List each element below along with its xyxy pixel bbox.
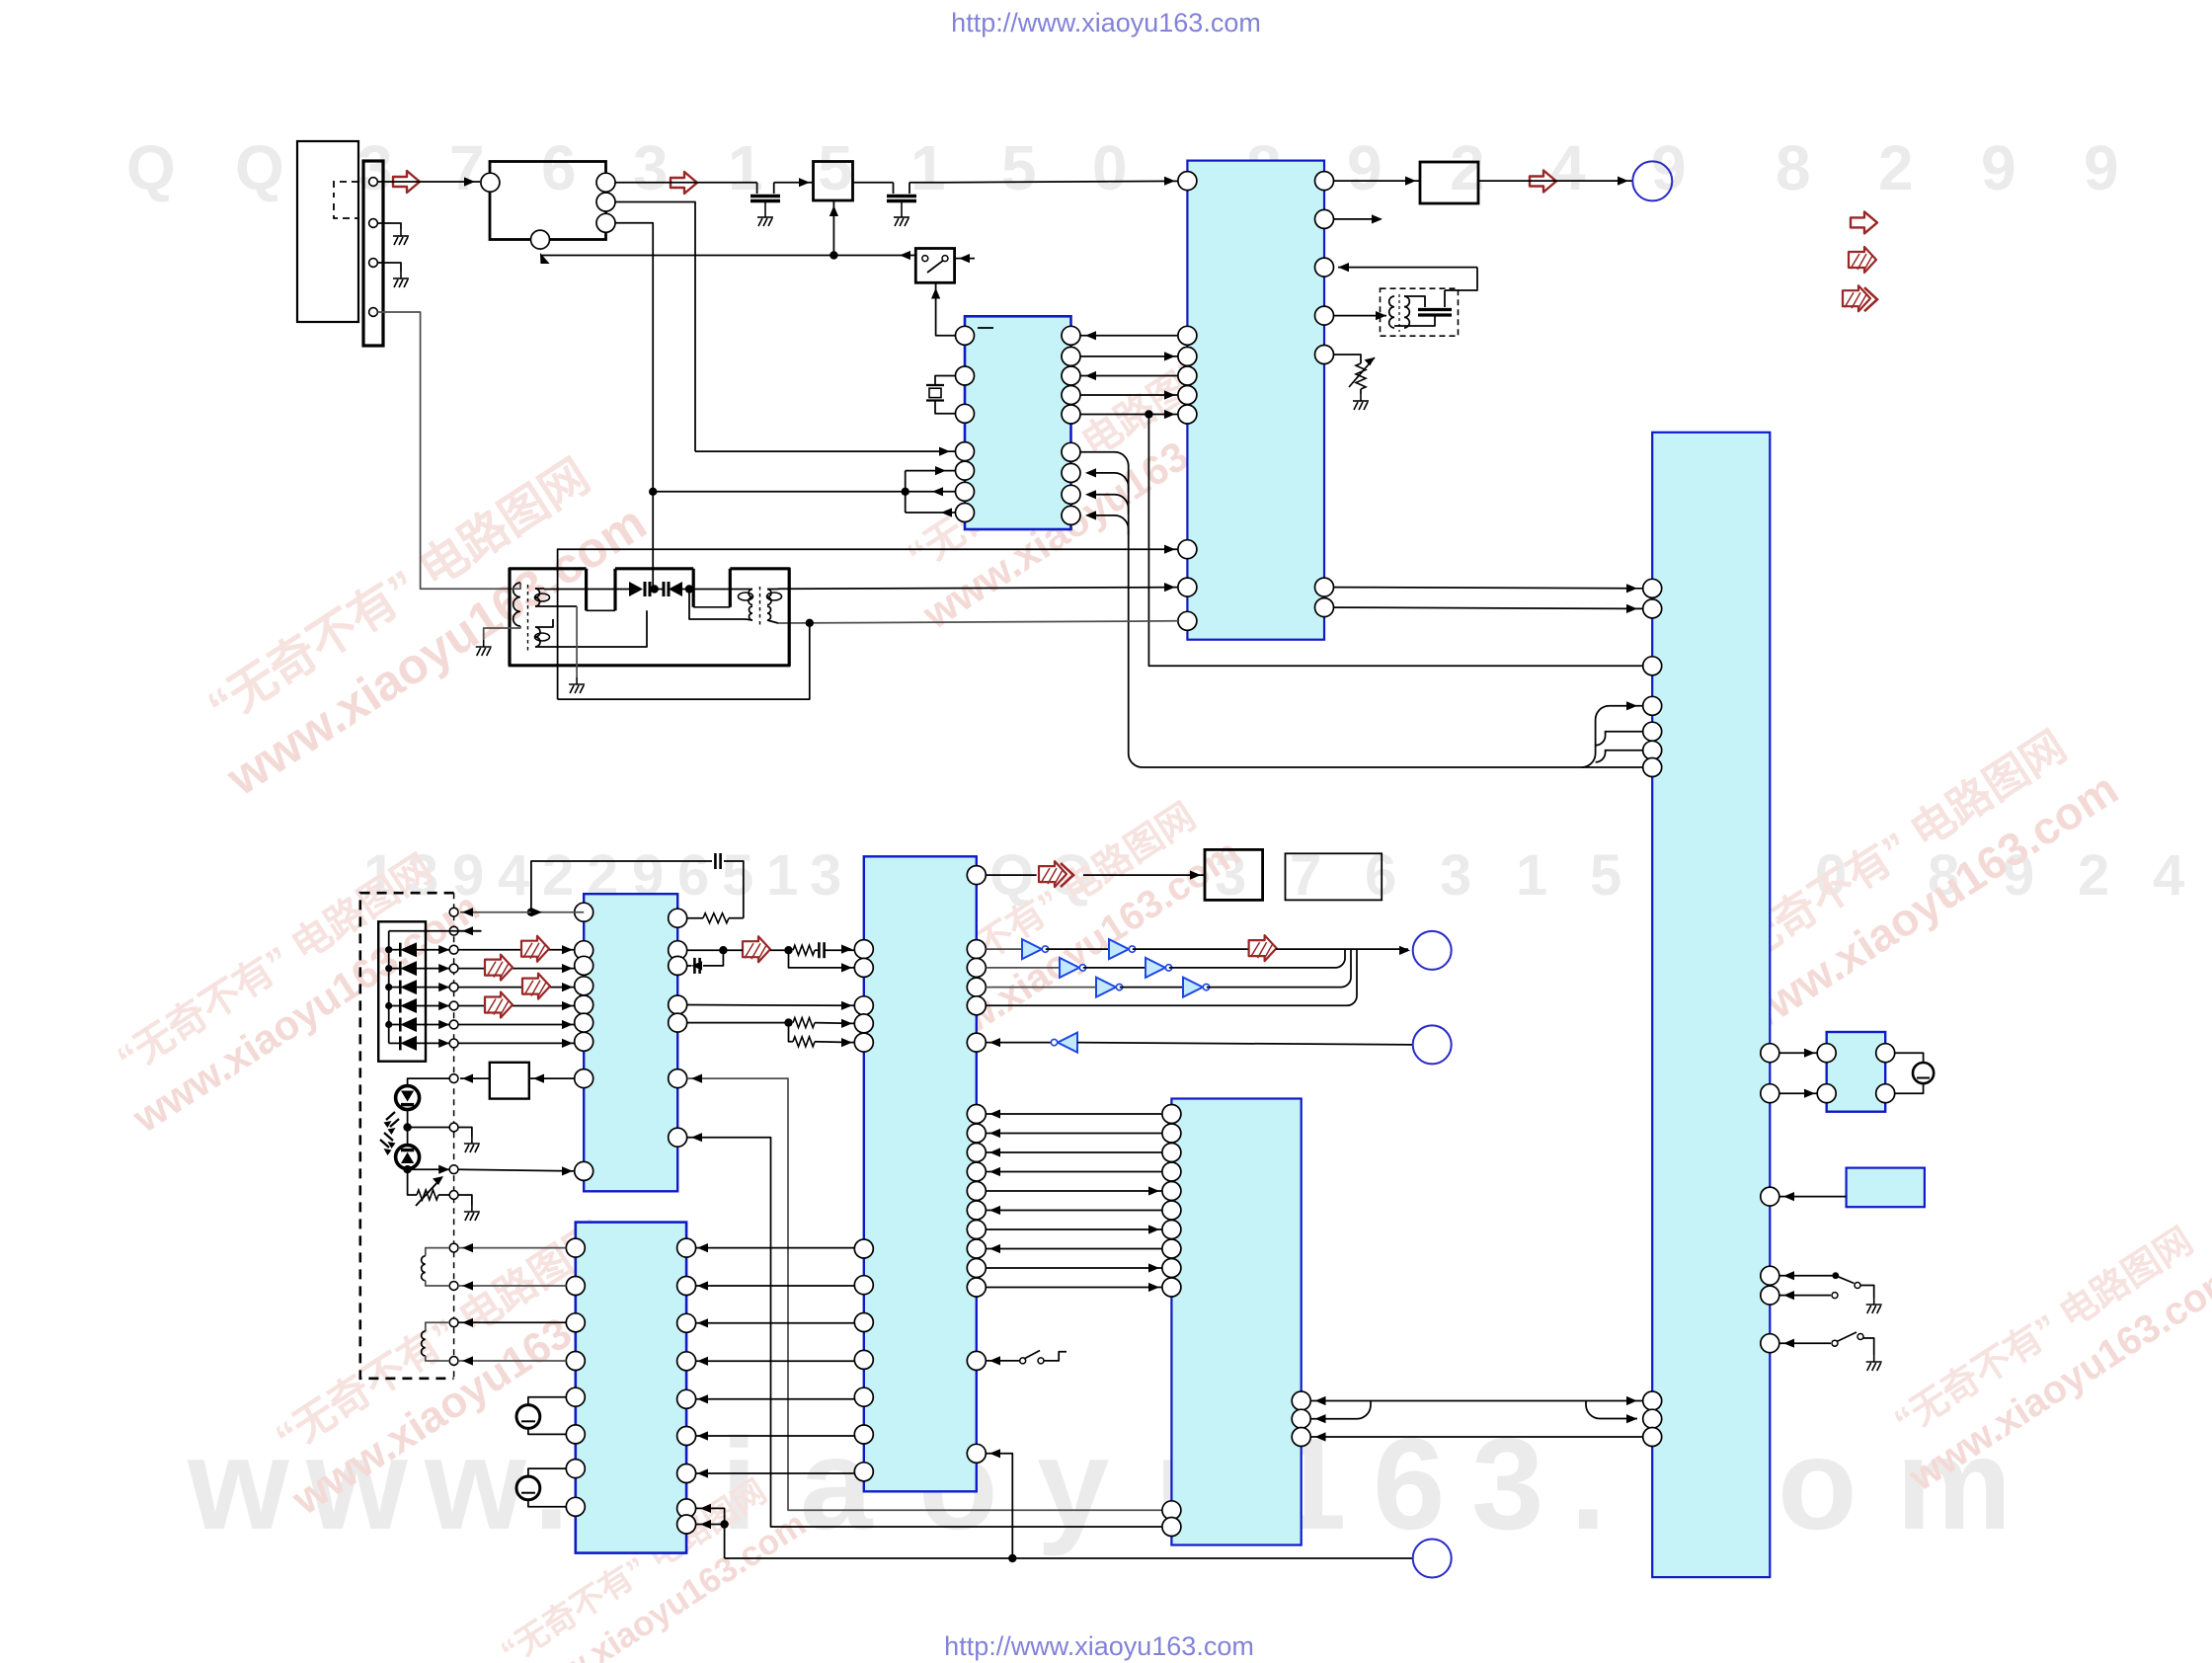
svg-text:y: y (1037, 1411, 1109, 1556)
IC601 pin R1 (1761, 1044, 1779, 1063)
IC201 pin L1 (956, 326, 975, 345)
IC601 pin L5 (1643, 722, 1662, 741)
IC403 pin R7 (677, 1465, 696, 1483)
connector CN101 pin strip (363, 161, 383, 346)
buffer row2 (986, 967, 1060, 969)
legend arrow hatched (1849, 247, 1876, 273)
signal arrow A6 (485, 955, 513, 981)
terminal T4 (449, 964, 458, 973)
IC401 pin L7 (575, 1032, 593, 1051)
ground G3 (757, 210, 773, 226)
IC601 pin L3 (1643, 657, 1662, 675)
IC501 pin L1 (854, 940, 873, 959)
diode array box (378, 921, 426, 1061)
row4 (986, 949, 1357, 1005)
transformer T602 left (749, 590, 752, 605)
ceramic filter CF101 body (814, 162, 853, 201)
IC301 pin R6 (1315, 578, 1334, 596)
IC402 pin L6 (1162, 1201, 1181, 1220)
T601 secondary bottom (535, 627, 540, 647)
IC403 pin L8 (566, 1497, 585, 1516)
headphone jack J502 (1413, 1025, 1452, 1064)
terminal T10 (449, 1123, 458, 1132)
phones jack J301 (1632, 161, 1672, 200)
IC401 pin L3 (575, 956, 593, 975)
serial bus row3 (1310, 1436, 1642, 1438)
IC401 pin L5 (575, 995, 593, 1014)
IC501 pin L2 (854, 958, 873, 977)
IC501 pin L4 (854, 1014, 873, 1033)
detector diode D602 (663, 582, 666, 596)
serial bus entry left (1310, 1401, 1371, 1419)
svg-text:http://www.xiaoyu163.com: http://www.xiaoyu163.com (951, 8, 1261, 38)
wire from U101 out3 to diode junction (652, 487, 654, 590)
watermark pink rotated stamps (179, 437, 656, 807)
wire IC401 R7 down bus (687, 1138, 1162, 1527)
wire C101 to BPF (774, 182, 814, 184)
X601 pin L1 (1817, 1044, 1836, 1063)
AGC return wire (540, 255, 833, 257)
IC401 pin L4 (575, 977, 593, 995)
CN101 pin 3 (369, 259, 378, 268)
ground G2 (393, 272, 409, 287)
bus IC501-IC402 row5 (986, 1190, 1162, 1192)
ground G8 (1866, 1298, 1882, 1313)
IC403 pin L3 (566, 1313, 585, 1332)
switch S602 (1779, 1342, 1831, 1344)
RC into IC501 L1 (793, 945, 815, 955)
key diode D702 (385, 965, 392, 972)
wire IC301 R6 to IC601 L1 (1334, 588, 1643, 589)
svg-text:1: 1 (910, 132, 946, 203)
discriminator cap (1404, 296, 1425, 307)
IC403 pin L6 (566, 1425, 585, 1444)
legend arrow plain (1851, 211, 1877, 233)
wire junction up into CF101 (832, 200, 834, 256)
level meter IC402 body (1171, 1099, 1301, 1545)
svg-text:6: 6 (541, 132, 577, 203)
IC601 pin L4 (1643, 696, 1662, 715)
DSP IC601 body (1652, 433, 1770, 1577)
buffer row3 (986, 987, 1096, 989)
IC402 pin L7 (1162, 1221, 1181, 1239)
junction dot J6 (685, 585, 693, 593)
diode cathode rail (389, 930, 482, 932)
bus IC501-IC402 row3 (986, 1151, 1162, 1153)
IC301 R2 stub arrow (1334, 218, 1380, 220)
bus IC403-IC501 row1 (696, 1247, 855, 1249)
IC401 pin L9 (575, 1161, 593, 1180)
IC301 pin L9 (1178, 611, 1197, 630)
bus split into IC601 pins (1582, 706, 1643, 767)
crystal X201 wires (935, 376, 956, 386)
ground G4 (894, 210, 909, 226)
IC201 pin R9 (1062, 506, 1080, 524)
IC501 pin T1 (854, 1239, 873, 1258)
wire C102 node to IC301 L1 (946, 181, 1178, 182)
wire loop output to IC301 L7 (558, 549, 1178, 699)
bus IC403-IC501 row4 (696, 1360, 855, 1362)
signal arrow A7 (522, 974, 550, 999)
transformer T602 secondary (767, 590, 771, 605)
svg-text:3: 3 (1440, 843, 1471, 908)
bus IC403-IC501 row3 (696, 1322, 855, 1324)
feedback loop wire (531, 861, 712, 912)
IC301 pin R1 (1315, 172, 1334, 191)
signal arrow A8 (485, 992, 513, 1018)
U101 pin agc (531, 230, 550, 249)
IC301 pin L6 (1178, 405, 1197, 424)
IC402 pin R1 (1292, 1391, 1310, 1410)
svg-text:5: 5 (722, 843, 753, 908)
preamp IC401 body (584, 894, 677, 1191)
wire IC401 R4 to IC501 L3 (687, 1004, 855, 1007)
IC201 pin R4 (1062, 386, 1080, 405)
wire pin1 to U101 (378, 181, 481, 183)
record box U501 (1205, 849, 1263, 900)
wire pin2 to ground (378, 223, 402, 229)
IC403 pin R5 (677, 1389, 696, 1408)
wire IC401 L8 to amp (529, 1077, 575, 1079)
bottom pins feed (696, 1508, 725, 1558)
RF amp U101 body (490, 162, 606, 240)
IC301 pin L4 (1178, 366, 1197, 385)
IC403 pin R2 (677, 1277, 696, 1296)
wire IC301 R1 to det box (1334, 180, 1421, 182)
junction dot J7 (527, 909, 535, 916)
bus IC403-IC501 row2 (696, 1285, 855, 1287)
IC501 pin SW (967, 1351, 986, 1370)
junction dot J5 (651, 585, 659, 593)
IC501 pin T2 (854, 1276, 873, 1295)
wire IC601 to X601 row1 (1779, 1052, 1817, 1054)
feedback resistor R401 (703, 913, 729, 923)
sensor dashed enclosure (360, 893, 454, 1379)
IC401 pin R3 (669, 956, 687, 975)
IC403 pin L1 (566, 1238, 585, 1257)
junction dot J2 (649, 488, 657, 496)
IC401 pin R2 (669, 941, 687, 960)
IC402 pin L10 (1162, 1278, 1181, 1297)
audio DSP IC501 body (864, 856, 977, 1491)
return loop wire (558, 623, 810, 699)
svg-text:7: 7 (449, 132, 485, 203)
IC601 pin L2 (1643, 599, 1662, 618)
IC301 pin L8 (1178, 578, 1197, 596)
junction dot J11 (720, 1520, 728, 1528)
junction dot J3 (902, 488, 909, 496)
IC401 pin R7 (669, 1128, 687, 1147)
svg-text:3: 3 (1471, 1411, 1543, 1556)
wire T602 bottom to IC301 L9 (778, 621, 1178, 623)
IC402 pin Lb2 (1162, 1518, 1181, 1537)
wire to jack J301 (1478, 180, 1632, 182)
IC402 pin L2 (1162, 1124, 1181, 1143)
svg-text:5: 5 (1590, 843, 1621, 908)
IC201 pin L7 (956, 504, 975, 522)
serial bus exit right (1586, 1401, 1637, 1419)
wire T602 sec to IC301 L8 (790, 588, 1178, 590)
wire IC601 to X601 row2 (1779, 1092, 1817, 1094)
IC402 pin L5 (1162, 1182, 1181, 1201)
key diode D706 (389, 1042, 401, 1044)
antenna coil L401 (449, 1243, 458, 1252)
key diode D705 (385, 1021, 392, 1028)
bus IC501-IC402 row4 (986, 1171, 1162, 1173)
IC403 pin R1 (677, 1238, 696, 1257)
IC201 pin R7 (1062, 463, 1080, 482)
IC403 pin Rb1 (677, 1499, 696, 1518)
IC501 pin S1 (967, 1105, 986, 1124)
IC401 R2 out node (687, 949, 724, 951)
IC501 pin L3 (854, 996, 873, 1015)
U101 pin out3 (596, 213, 615, 232)
svg-text:4: 4 (2153, 843, 2184, 908)
junction dot J8 (403, 1123, 411, 1131)
IC301 pin R7 (1315, 598, 1334, 617)
bus row5 with tap (1080, 414, 1178, 416)
wire terminal to LED anode (408, 1078, 450, 1085)
discriminator coil T301 (1389, 296, 1394, 328)
detector block outline (510, 569, 789, 666)
IC601 pin L9 (1643, 1409, 1662, 1428)
IC501 pin T3 (854, 1313, 873, 1332)
terminal T7 (449, 1020, 458, 1029)
connector CN101 outer body (297, 141, 358, 322)
outline notch left (585, 569, 588, 611)
system control IC301 body (1187, 161, 1324, 640)
signal arrow A4 (743, 936, 770, 962)
IC402 pin L3 (1162, 1144, 1181, 1162)
svg-text:0: 0 (1092, 132, 1128, 203)
detector box U301 (1420, 162, 1478, 203)
key diode D703 (385, 984, 392, 990)
IC601 pin L10 (1643, 1428, 1662, 1447)
legend arrow hatched double (1843, 285, 1870, 311)
row5 inverter left (986, 1042, 1058, 1044)
ground stem G7 (576, 606, 578, 677)
IC401 pin R6 (669, 1069, 687, 1088)
IC201 pin R2 (1062, 347, 1080, 365)
signal arrow A1 (393, 171, 420, 193)
photo diode D708 (396, 1146, 420, 1169)
resonator X601 block (1827, 1032, 1886, 1112)
bus IC501-IC402 row7 (986, 1228, 1162, 1230)
IC403 pin R6 (677, 1427, 696, 1446)
signal arrow A3 (1530, 171, 1556, 193)
IC601 pin R5 (1761, 1286, 1779, 1305)
emission arrows D707 (386, 1112, 399, 1127)
IC201 pin R1 (1062, 326, 1080, 345)
svg-text:6: 6 (677, 843, 709, 908)
bus row4 (1080, 394, 1178, 396)
junction dot J9 (403, 1165, 411, 1173)
svg-text:Q: Q (235, 132, 284, 203)
terminal T5 (449, 983, 458, 991)
bus IC501-IC402 row10 (986, 1287, 1162, 1289)
IC501 pin L5 (854, 1033, 873, 1052)
IC201 pin R3 (1062, 366, 1080, 385)
wire IC301 R4 to discriminator (1334, 315, 1387, 317)
IC601 pin L6 (1643, 741, 1662, 759)
wire pin4 down to T601 primary (378, 312, 513, 589)
bus IC403-IC501 row6 (696, 1435, 855, 1437)
IC402 pin L9 (1162, 1259, 1181, 1278)
key diode D701 (385, 946, 392, 953)
IC401 pin R4 (669, 995, 687, 1014)
bus IC501-IC402 row6 (986, 1210, 1162, 1212)
IC501 pin R2 (967, 958, 986, 977)
IC201 pin R8 (1062, 485, 1080, 504)
IC401 pin L1 (575, 903, 593, 921)
emission arrows D708 (380, 1133, 393, 1148)
U101 pin in (481, 173, 500, 192)
dashed discriminator box (1381, 288, 1459, 336)
cap C102 to ground (893, 183, 895, 194)
svg-text:Q: Q (126, 132, 176, 203)
IC403 pin Rb2 (677, 1515, 696, 1534)
wire C102 to IC201 (909, 182, 946, 184)
net cluster L5-L7 (653, 491, 906, 493)
IC402 pin L1 (1162, 1105, 1181, 1124)
IC601 pin R3 (1761, 1187, 1779, 1206)
svg-text:9: 9 (1347, 132, 1382, 203)
X601 pin R2 (1876, 1084, 1895, 1103)
CN101 pin 2 (369, 219, 378, 228)
IC403 pin L5 (566, 1387, 585, 1406)
antenna coil L402 (449, 1318, 458, 1327)
bus row3 (1080, 375, 1178, 377)
svg-text:9: 9 (2084, 132, 2119, 203)
IC501 pin T4 (854, 1350, 873, 1369)
tap bus down right (1148, 415, 1642, 667)
wire top out (986, 874, 1036, 876)
U101 pin out1 (596, 173, 615, 192)
ground G9 (1866, 1355, 1882, 1371)
bus IC403-IC501 row7 (696, 1472, 855, 1474)
bus row2 (1080, 356, 1178, 357)
ground G11 (464, 1205, 480, 1221)
IC402 pin L4 (1162, 1162, 1181, 1181)
IC403 pin R3 (677, 1313, 696, 1332)
mute feed wire (986, 1454, 1012, 1558)
CN101 pin 4 (369, 308, 378, 317)
IC402 pin L8 (1162, 1239, 1181, 1258)
terminal T6 (449, 1001, 458, 1010)
wire U101 out1 to C101 (615, 182, 757, 184)
microphone MIC1 (528, 1397, 566, 1405)
trimmer RT301 (1334, 355, 1362, 363)
IC501 pin S7 (967, 1221, 986, 1239)
wire U101 out2 down (615, 202, 695, 452)
wire IC401 R5 node (687, 1022, 789, 1024)
CN101 pin 1 (369, 178, 378, 187)
wire pin3 to ground (378, 263, 402, 272)
X601 pin L2 (1817, 1084, 1836, 1103)
IC501 pin S9 (967, 1259, 986, 1278)
signal arrow A10 (1249, 935, 1277, 961)
wire into IC201 L4 (695, 450, 956, 452)
svg-text:4: 4 (498, 843, 529, 908)
IC601 pin R6 (1761, 1334, 1779, 1353)
IC402 pin R3 (1292, 1428, 1310, 1447)
IC201 pin L3 (956, 404, 975, 423)
switch S101 body (915, 249, 954, 283)
crystal X201 (926, 384, 944, 386)
IC601 pin R4 (1761, 1266, 1779, 1285)
IC201 pin L6 (956, 482, 975, 501)
svg-text:2: 2 (2078, 843, 2109, 908)
terminal T11 (449, 1165, 458, 1174)
U101 pin out2 (596, 193, 615, 211)
IC201 pin R6 (1062, 442, 1080, 461)
line out jack J501 (1413, 931, 1452, 970)
buffer row1 (986, 948, 1022, 950)
X601 pin R1 (1876, 1044, 1895, 1063)
sensor amp box U401 (490, 1063, 529, 1099)
microphone MIC2 (528, 1468, 566, 1476)
junction dot J4 (806, 619, 814, 627)
switch S501 (986, 1360, 1019, 1362)
IC301 R3 wire from osc (1338, 267, 1477, 269)
reset block (1847, 1168, 1925, 1208)
IC301 pin L5 (1178, 386, 1197, 405)
IC601 pin L8 (1643, 1391, 1662, 1410)
IC501 pin mute (967, 1444, 986, 1463)
svg-text:1: 1 (1516, 843, 1547, 908)
bus IC501-IC402 row2 (986, 1133, 1162, 1135)
IC402 pin R2 (1292, 1409, 1310, 1428)
wire BPF to C102 (852, 182, 893, 184)
IC501 pin S6 (967, 1201, 986, 1220)
IC501 pin Rtop (967, 866, 986, 885)
IC301 pin L2 (1178, 326, 1197, 345)
remote sensor terminal T2 (449, 926, 458, 935)
load capacitor C601 (1895, 1053, 1924, 1063)
cap C101 to ground (756, 183, 758, 194)
IC501 pin R4 (967, 996, 986, 1015)
IC501 pin S8 (967, 1239, 986, 1258)
IC201 polarity mark (978, 327, 993, 329)
IC501 pin S3 (967, 1144, 986, 1162)
IC201 pin L5 (956, 461, 975, 480)
wire amp to terminal (460, 1077, 490, 1079)
svg-text:3: 3 (810, 843, 841, 908)
svg-text:.: . (1570, 1411, 1607, 1556)
svg-text:o: o (1777, 1411, 1857, 1556)
IC201 R6-R9 merged bus to IC601 (1080, 452, 1643, 767)
ground G10 (464, 1137, 480, 1152)
terminal T8 (449, 1039, 458, 1048)
IC401 pin R1 (669, 909, 687, 927)
IC403 pin L4 (566, 1352, 585, 1371)
ground G1 (393, 229, 409, 245)
detector diode D601 (544, 589, 629, 591)
IC201 pin R5 (1062, 405, 1080, 424)
IC301 pin R2 (1315, 209, 1334, 228)
IC501 pin S4 (967, 1162, 986, 1181)
IC501 pin R3 (967, 978, 986, 996)
switch S601 NC stub (1779, 1295, 1831, 1297)
wire switch bottom to IC201 (936, 282, 956, 336)
branch to IC501 L2 (789, 950, 855, 968)
IC201 pin L2 (956, 366, 975, 385)
IC501 pin S10 (967, 1278, 986, 1297)
svg-text:3: 3 (633, 132, 669, 203)
IC501 pin S5 (967, 1182, 986, 1201)
ext jack J503 (1413, 1540, 1452, 1578)
IF IC201 body (965, 316, 1071, 529)
